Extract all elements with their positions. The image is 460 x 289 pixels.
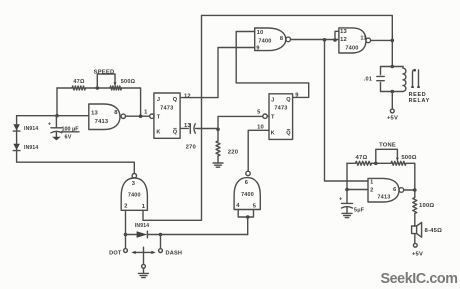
svg-text:1: 1 (144, 110, 148, 116)
svg-text:K: K (271, 131, 275, 137)
svg-text:3: 3 (132, 181, 136, 187)
svg-text:.01: .01 (364, 77, 372, 83)
svg-text:Q: Q (173, 130, 178, 136)
svg-text:SeekIC.com: SeekIC.com (380, 271, 457, 287)
svg-text:IN914: IN914 (24, 126, 38, 132)
svg-text:5: 5 (253, 203, 257, 209)
svg-text:7400: 7400 (345, 46, 358, 52)
svg-text:11: 11 (360, 36, 366, 42)
svg-text:K: K (156, 130, 160, 136)
svg-text:J: J (271, 97, 274, 103)
svg-text:+: + (339, 197, 342, 203)
svg-text:7473: 7473 (160, 106, 173, 112)
svg-text:IN914: IN914 (24, 145, 38, 151)
svg-text:8: 8 (280, 36, 283, 42)
svg-text:RELAY: RELAY (409, 98, 430, 104)
svg-text:T: T (157, 115, 161, 121)
svg-text:9: 9 (295, 93, 299, 99)
svg-text:7400: 7400 (241, 192, 254, 198)
svg-text:+5V: +5V (412, 251, 423, 257)
svg-text:270: 270 (186, 145, 197, 151)
svg-text:10: 10 (257, 125, 264, 131)
svg-text:13: 13 (91, 111, 98, 117)
svg-text:2: 2 (124, 204, 127, 210)
svg-text:Q: Q (286, 97, 291, 103)
svg-text:9: 9 (256, 45, 260, 51)
svg-text:12: 12 (340, 37, 347, 43)
svg-text:5μF: 5μF (354, 207, 365, 213)
svg-text:Q: Q (173, 97, 178, 103)
svg-text:1: 1 (370, 180, 373, 186)
svg-text:6V: 6V (65, 134, 72, 140)
svg-text:2: 2 (370, 187, 373, 193)
svg-text:500Ω: 500Ω (121, 79, 136, 85)
svg-text:DOT: DOT (109, 250, 122, 256)
svg-text:J: J (157, 97, 160, 103)
svg-text:7473: 7473 (274, 106, 287, 112)
svg-text:Q: Q (286, 131, 291, 137)
svg-text:TONE: TONE (379, 142, 396, 148)
svg-text:100Ω: 100Ω (419, 203, 434, 209)
svg-text:47Ω: 47Ω (356, 155, 368, 161)
svg-text:T: T (271, 115, 275, 121)
svg-text:DASH: DASH (166, 250, 183, 256)
svg-text:8-45Ω: 8-45Ω (425, 228, 443, 234)
svg-text:220: 220 (228, 150, 239, 156)
svg-text:4: 4 (236, 203, 240, 209)
svg-text:IN914: IN914 (135, 223, 149, 229)
svg-text:8: 8 (114, 110, 118, 116)
svg-text:13: 13 (340, 29, 347, 35)
svg-text:47Ω: 47Ω (73, 79, 85, 85)
svg-text:12: 12 (184, 93, 191, 99)
svg-text:7413: 7413 (377, 195, 390, 201)
svg-text:+: + (48, 121, 51, 127)
svg-text:1: 1 (142, 204, 146, 210)
svg-text:5: 5 (257, 110, 261, 116)
svg-text:100 μF: 100 μF (62, 127, 80, 133)
svg-text:+5V: +5V (387, 115, 398, 121)
svg-text:13: 13 (184, 123, 191, 129)
svg-text:500Ω: 500Ω (401, 155, 416, 161)
svg-text:6: 6 (245, 180, 249, 186)
svg-text:7413: 7413 (95, 119, 109, 125)
svg-text:6: 6 (393, 187, 396, 193)
svg-text:7400: 7400 (128, 193, 141, 199)
svg-text:10: 10 (257, 30, 264, 36)
svg-text:7400: 7400 (258, 39, 271, 45)
svg-text:SPEED: SPEED (94, 69, 115, 75)
